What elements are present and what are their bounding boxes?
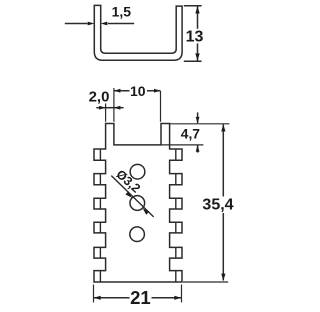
svg-text:35,4: 35,4 <box>202 197 233 214</box>
svg-text:2,0: 2,0 <box>89 88 110 105</box>
svg-text:1,5: 1,5 <box>112 3 132 19</box>
svg-text:10: 10 <box>130 83 146 99</box>
svg-text:4,7: 4,7 <box>181 126 201 141</box>
svg-text:21: 21 <box>130 287 151 308</box>
svg-text:13: 13 <box>186 29 204 46</box>
